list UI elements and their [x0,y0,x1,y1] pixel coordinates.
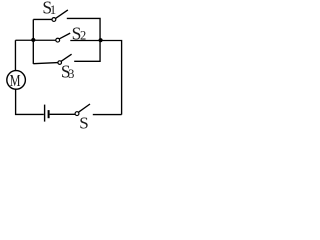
svg-text:M: M [10,71,21,90]
svg-text:3: 3 [68,67,74,81]
svg-text:2: 2 [80,29,86,43]
svg-text:1: 1 [50,3,56,17]
svg-text:S: S [79,114,88,130]
